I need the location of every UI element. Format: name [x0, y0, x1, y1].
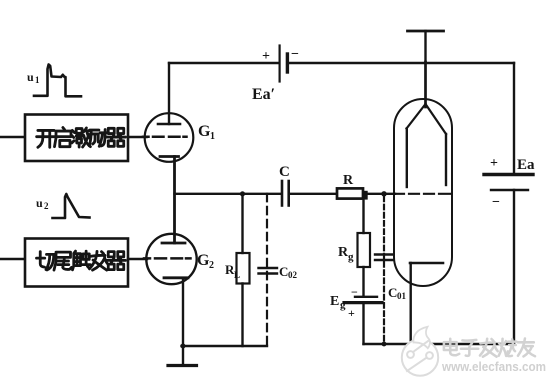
svg-text:1: 1: [35, 75, 40, 85]
text 开启激励器 in block 1: [37, 130, 56, 147]
node line from C to resistor R: [290, 193, 335, 195]
G1 anode bar: [158, 123, 180, 126]
svg-text:R: R: [343, 173, 354, 188]
capacitor C: [282, 181, 289, 206]
G1 grid dashes: [143, 136, 187, 139]
top bus left segment: [169, 62, 279, 64]
wire G1 anode up to top bus: [168, 63, 170, 124]
block U_B 切尾触发器 (tail-cut trigger): [25, 239, 128, 287]
capacitor C02 (stray, dashed): [259, 194, 278, 346]
svg-text:−: −: [291, 47, 299, 62]
anode plate left: [406, 129, 408, 188]
svg-text:Ea′: Ea′: [252, 86, 275, 103]
wire input to trigger block 2: [0, 258, 24, 260]
wire input to trigger block 1: [0, 136, 24, 138]
svg-text:1: 1: [210, 131, 215, 142]
svg-text:−: −: [492, 195, 500, 210]
svg-text:g: g: [340, 299, 346, 311]
capacitor C01 (stray, dashed): [375, 197, 394, 347]
tube G1: [143, 113, 193, 162]
svg-text:C: C: [279, 264, 288, 279]
svg-text:+: +: [262, 49, 270, 64]
wire G1 cathode to G2 anode (coupling node): [173, 157, 176, 244]
bottom bus right: [364, 343, 515, 345]
svg-text:+: +: [490, 156, 498, 171]
ground: [168, 364, 197, 367]
wire Ea minus down to bottom bus: [513, 190, 515, 344]
waveform u2: [53, 194, 90, 218]
watermark logo circle: [402, 327, 438, 376]
svg-text:+: +: [348, 306, 355, 320]
wire right side down to Ea: [513, 63, 515, 174]
svg-text:u: u: [36, 196, 43, 210]
resistor R: [337, 188, 368, 199]
svg-text:−: −: [351, 285, 358, 299]
svg-text:g: g: [348, 251, 354, 263]
svg-text:E: E: [330, 294, 339, 309]
switch tube V envelope: [394, 99, 452, 286]
junction dot at C01 branch on grid wire: [381, 191, 386, 196]
anode V electrode: [407, 104, 447, 134]
battery Ea': [280, 46, 288, 82]
svg-text:u: u: [27, 70, 34, 84]
G2 grid dashes: [144, 257, 191, 260]
top bus right segment: [289, 62, 514, 64]
cathode of switch tube: [409, 263, 444, 346]
waveform u1: [34, 65, 81, 97]
svg-text:C: C: [388, 285, 397, 300]
battery Eg: [344, 297, 382, 344]
grid dashed line of switch tube: [395, 193, 450, 195]
bottom bus left: [182, 345, 268, 347]
wire block1 to G1 grid: [128, 136, 147, 138]
wire R to grid of switch tube: [365, 193, 395, 195]
wire block2 to G2 grid: [128, 258, 147, 260]
resistor RL: [237, 194, 250, 346]
block U_A 开启激励器 (turn-on driver): [25, 115, 128, 162]
svg-text:Ea: Ea: [517, 157, 535, 173]
svg-text:2: 2: [44, 201, 49, 211]
G1 cathode bar: [160, 155, 179, 158]
wire G2 cathode down to ground: [182, 278, 184, 364]
node line from coupling to capacitor C: [175, 193, 281, 195]
svg-text:www.elecfans.com: www.elecfans.com: [441, 360, 546, 374]
G2 cathode bar: [164, 276, 188, 279]
anode top cap bar: [408, 31, 444, 107]
junction dot at ground-bus tee: [181, 344, 186, 349]
watermark text 电子发烧友: [444, 338, 535, 356]
G2 anode bar: [162, 242, 185, 245]
anode plate right: [445, 134, 447, 185]
svg-text:02: 02: [288, 270, 298, 280]
svg-text:C: C: [279, 164, 290, 180]
svg-text:2: 2: [209, 260, 214, 271]
battery Ea: [484, 175, 533, 191]
resistor Rg: [358, 199, 371, 296]
junction dot at RL branch: [240, 191, 245, 196]
svg-text:01: 01: [397, 291, 407, 301]
svg-text:L: L: [234, 270, 240, 280]
text 切尾触发器 in block 2: [37, 252, 56, 270]
tube G2: [144, 234, 197, 284]
